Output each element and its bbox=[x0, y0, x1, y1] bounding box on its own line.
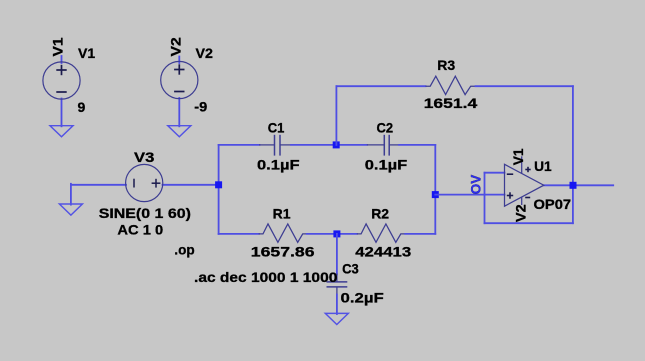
wire: cap row left bbox=[219, 144, 260, 146]
svg-text:0.1µF: 0.1µF bbox=[257, 157, 300, 173]
wire: V3 right bbox=[163, 184, 219, 186]
wire: cap row right bbox=[399, 144, 435, 146]
wire: -input stub bbox=[485, 172, 505, 174]
svg-text:AC 1 0: AC 1 0 bbox=[117, 223, 163, 239]
svg-text:V3: V3 bbox=[134, 150, 154, 165]
node junction J5 (output) bbox=[570, 182, 577, 189]
wire: feedback left vertical bbox=[484, 173, 486, 224]
ground under C3 bbox=[325, 313, 348, 324]
svg-text:1657.86: 1657.86 bbox=[251, 245, 315, 260]
wire: feedback right vertical bbox=[572, 185, 574, 223]
voltage source V3 bbox=[126, 164, 163, 201]
node junction J3 (right rail / +input) bbox=[432, 191, 439, 198]
svg-text:R2: R2 bbox=[371, 205, 389, 221]
svg-text:OP07: OP07 bbox=[534, 197, 572, 213]
wire: R3 riser right bbox=[572, 86, 574, 185]
svg-text:R3: R3 bbox=[437, 57, 455, 73]
wire: V2 top stub bbox=[178, 57, 180, 64]
op-amp U1 bbox=[505, 156, 544, 206]
node junction J1 (V3 / left rail) bbox=[215, 181, 222, 188]
voltage source V2 bbox=[161, 61, 198, 98]
svg-text:SINE(0 1 60): SINE(0 1 60) bbox=[99, 206, 191, 222]
wire: output bbox=[544, 184, 613, 186]
svg-text:OV: OV bbox=[468, 174, 483, 194]
wire: V1 bottom stub bbox=[61, 99, 63, 127]
ground at V3 bbox=[59, 204, 82, 215]
svg-text:V1: V1 bbox=[510, 148, 526, 165]
wire: cap row middle bbox=[291, 144, 367, 146]
svg-text:C1: C1 bbox=[268, 120, 285, 136]
wire: V2 bottom stub bbox=[178, 98, 180, 126]
wire: +input bbox=[435, 194, 504, 196]
capacitor C3 bbox=[327, 274, 348, 296]
wire: R row middle bbox=[307, 233, 357, 235]
resistor R3 bbox=[426, 76, 476, 94]
svg-text:V2: V2 bbox=[514, 204, 530, 222]
capacitor C1 bbox=[259, 135, 292, 156]
wire: V3 left bbox=[71, 184, 126, 186]
wire: left rail bbox=[218, 145, 220, 234]
svg-text:R1: R1 bbox=[273, 205, 291, 221]
svg-text:9: 9 bbox=[78, 99, 86, 115]
wire: R3 rail right part bbox=[476, 85, 573, 87]
node junction J4 (R1/R2/C3) bbox=[333, 230, 340, 237]
wire: R row left bbox=[219, 233, 259, 235]
svg-text:0.1µF: 0.1µF bbox=[365, 157, 408, 173]
resistor R2 bbox=[357, 224, 405, 242]
wire: right rail bbox=[434, 145, 436, 234]
svg-text:V1: V1 bbox=[51, 37, 66, 56]
capacitor C2 bbox=[367, 135, 400, 156]
wire: C3 to ground bbox=[336, 295, 338, 315]
svg-text:.op: .op bbox=[174, 242, 194, 257]
ground under V2 bbox=[168, 126, 191, 137]
svg-text:0.2µF: 0.2µF bbox=[341, 291, 384, 306]
wire: C3 drop bbox=[336, 234, 338, 275]
svg-text:C2: C2 bbox=[377, 120, 394, 136]
svg-text:V2: V2 bbox=[196, 45, 214, 61]
wire: V1 top stub bbox=[61, 56, 63, 63]
svg-text:424413: 424413 bbox=[355, 245, 411, 260]
wire: feedback bottom bbox=[485, 222, 573, 224]
wire: V3 ground drop bbox=[70, 184, 72, 205]
svg-text:-9: -9 bbox=[194, 100, 207, 116]
svg-text:V1: V1 bbox=[78, 45, 95, 61]
svg-text:.ac dec 1000 1 1000: .ac dec 1000 1 1000 bbox=[194, 271, 337, 286]
ground under V1 bbox=[50, 126, 73, 137]
resistor R1 bbox=[259, 224, 307, 242]
svg-text:C3: C3 bbox=[342, 261, 359, 277]
svg-text:V2: V2 bbox=[168, 37, 184, 56]
svg-text:1651.4: 1651.4 bbox=[424, 97, 478, 112]
wire: R row right bbox=[405, 233, 435, 235]
wire: R3 rail left part bbox=[336, 85, 425, 87]
svg-text:U1: U1 bbox=[534, 158, 552, 174]
node junction J2 (C1/C2/R3) bbox=[333, 141, 340, 148]
wire: R3 riser left bbox=[335, 86, 337, 145]
voltage source V1 bbox=[43, 62, 80, 99]
